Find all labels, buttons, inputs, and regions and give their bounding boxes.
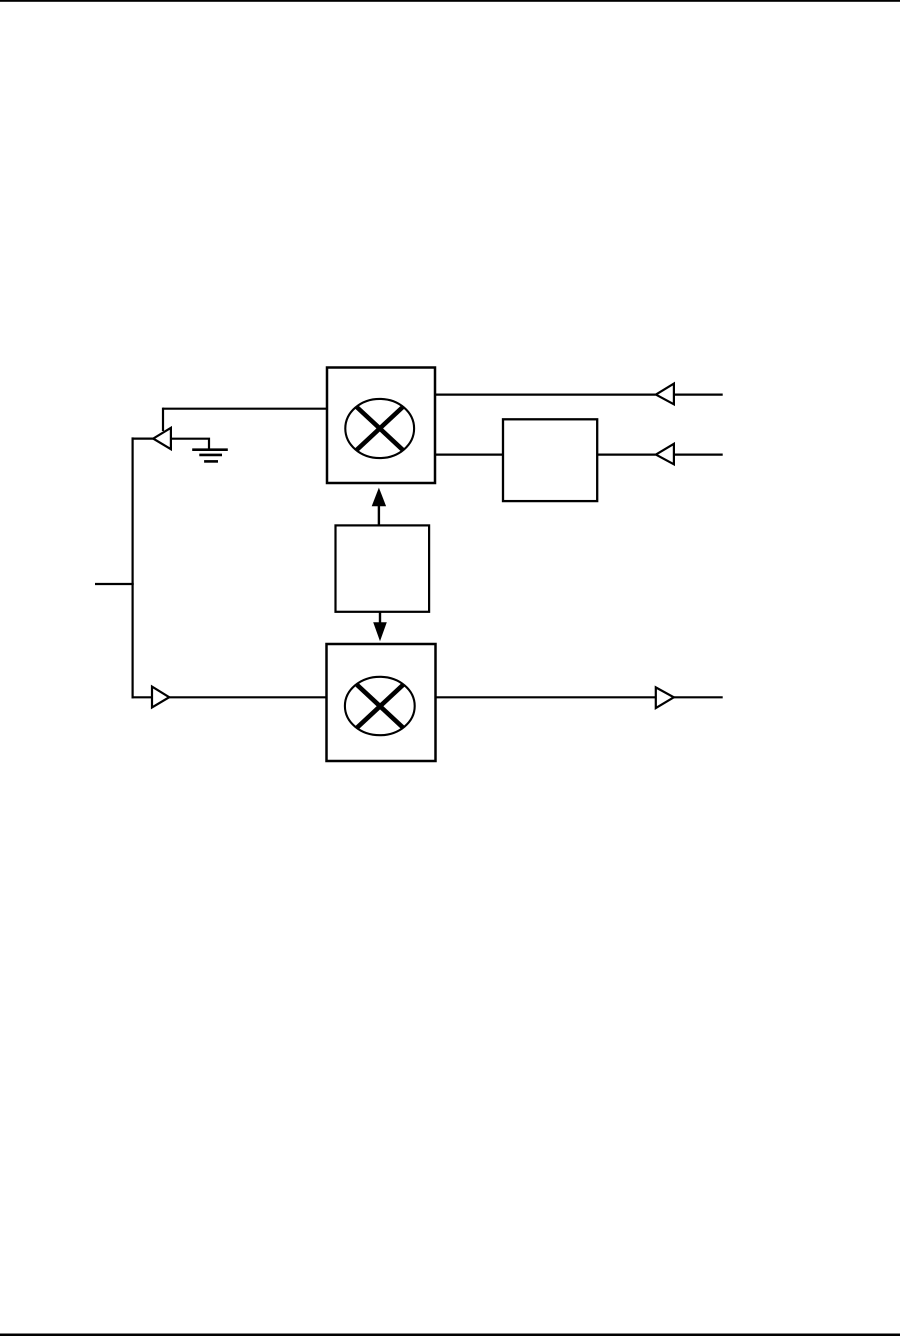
buffer A2 (right-pointing triangle) bbox=[152, 687, 169, 708]
input port stub bbox=[95, 583, 134, 585]
wire filter to T4 bbox=[597, 454, 656, 456]
mixer M1 (upper) box bbox=[327, 368, 435, 484]
wire A1 tip to left bus bbox=[132, 438, 155, 440]
input arrow T4 (left-pointing triangle) bbox=[656, 444, 674, 465]
mixer M1 X bbox=[357, 407, 403, 450]
wire M1 output top right bbox=[435, 394, 656, 396]
ground symbol bbox=[192, 450, 228, 462]
wire M1 left horizontal bbox=[163, 408, 328, 410]
input arrow T3 (left-pointing triangle) bbox=[656, 384, 674, 405]
wire A2 to M2 bbox=[169, 696, 327, 698]
filter block box bbox=[503, 419, 597, 501]
page footer rule bbox=[0, 1334, 900, 1336]
oscillator LO box bbox=[336, 525, 430, 611]
arrow LO to M2 (down) bbox=[373, 612, 387, 642]
left bus vertical wire bbox=[132, 437, 134, 698]
wire M2 output to A3 bbox=[435, 696, 657, 698]
mixer M2 circle bbox=[345, 677, 415, 735]
mixer M2 X bbox=[357, 685, 403, 728]
page header rule bbox=[0, 0, 900, 2]
buffer A1 (left-pointing triangle) bbox=[153, 428, 171, 449]
arrow LO to M1 (up) bbox=[372, 488, 386, 525]
wire bus to buffer A2 bbox=[132, 696, 153, 698]
wire T4 to right port bbox=[674, 454, 723, 456]
wire M1 to filter bbox=[435, 454, 505, 456]
wire down into buffer A1 bbox=[162, 408, 164, 431]
wire T3 to right port bbox=[674, 394, 723, 396]
mixer M1 circle bbox=[345, 399, 414, 458]
output buffer A3 (right-pointing triangle) bbox=[656, 687, 674, 708]
wire A3 to output port bbox=[674, 696, 723, 698]
wire A1 base to ground bbox=[171, 439, 209, 450]
mixer M2 (lower) box bbox=[327, 644, 436, 761]
